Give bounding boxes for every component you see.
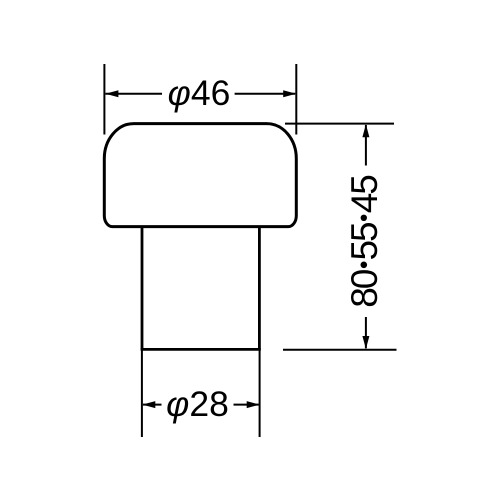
svg-text:φ46: φ46 [168,73,231,113]
extension line phi46 left [103,64,105,135]
arrowhead phi46 right [283,90,296,97]
dimension line phi46 right segment [235,93,296,95]
stem left edge [141,227,144,350]
arrowhead phi28 left [142,401,155,408]
svg-text:φ28: φ28 [166,384,229,424]
separator dot 2 [361,215,367,221]
extension line phi46 right [295,64,297,135]
stem right edge [258,227,261,350]
extension line height top [285,123,394,125]
arrowhead height down [362,336,369,349]
arrowhead height up [362,124,369,137]
dimension line phi28 left segment [143,404,162,406]
separator dot 1 [361,262,368,269]
dimension line height top segment [365,125,367,166]
stem bottom edge [141,348,261,351]
arrowhead phi46 left [105,90,118,97]
dimension line phi28 right segment [234,404,259,406]
extension line phi28 right [259,349,261,437]
extension line phi28 left [141,349,143,437]
extension line height bottom [283,349,397,351]
arrowhead phi28 right [247,401,260,408]
cap outline (mushroom head) [104,124,296,227]
svg-text:80·55·45: 80·55·45 [344,175,385,308]
dimension line phi46 left segment [106,93,163,95]
dimension line height bottom segment [365,317,367,348]
